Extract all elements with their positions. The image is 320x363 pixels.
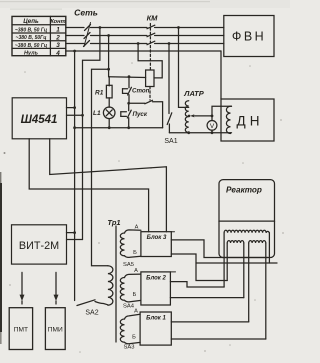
wire phase C row3 to switch [66,43,84,45]
wire control feed horizontal [109,76,146,79]
wire control bottom return [75,127,163,129]
node stub v2 [81,114,84,117]
svg-text:Блок 3: Блок 3 [147,235,167,241]
coil KM [146,70,154,87]
svg-text:Сеть: Сеть [74,8,98,18]
wire phase C KM to FVN [155,43,224,45]
svg-text:Стоп: Стоп [132,88,150,95]
block Реактор [219,180,275,258]
svg-text:ЛАТР: ЛАТР [183,89,204,98]
transformer Tr1 primary winding [108,266,113,305]
wire reactor W3 right lead [265,243,267,339]
wire LATR feed from phase A [177,26,180,29]
wire Ш4541 bottom A to Блок3 [29,139,148,232]
block ВИТ-2М [12,225,67,264]
reactor internal divider [219,220,275,222]
wire phase A drop to v2 [83,28,100,240]
svg-text:ПМТ: ПМТ [14,327,28,334]
wire SA1 bottom [168,124,170,133]
wire reactor W2 left lead [226,243,228,281]
svg-text:КМ: КМ [147,14,159,23]
svg-text:Цепь: Цепь [23,18,39,25]
svg-text:ФВН: ФВН [232,30,266,44]
wire Блок2 stub2 to W2 right [170,297,243,299]
node neutral tap [73,50,76,53]
svg-text:Б: Б [132,335,136,341]
wire secondary1 bottom lead [125,256,141,258]
svg-text:Б: Б [133,292,137,298]
node stub neutral [73,106,76,109]
wire Ш4541 bottom B to Блок3 [50,139,167,232]
svg-text:Ш4541: Ш4541 [21,114,58,126]
switch Сеть gang bar [84,23,91,47]
reactor winding W2 [227,241,244,243]
wire bottom bus SA1 to DN [169,132,231,134]
wire reactor W2 right lead [243,243,245,298]
svg-text:L1: L1 [93,110,101,117]
node voltmeter bottom [211,131,214,134]
transformer Tr1 secondary 3 winding [120,319,140,344]
wire wiper to voltmeter node [193,115,213,117]
DN internal winding [226,106,231,133]
block Блок3 [141,232,171,257]
node LATR bottom [187,131,190,134]
wire ВИТ stub to neutral [67,232,75,234]
svg-text:~380 В, 50 Гц: ~380 В, 50 Гц [15,43,47,49]
svg-text:Блок 2: Блок 2 [146,275,166,281]
svg-text:Конт: Конт [50,19,65,25]
contactor KM contact pole3 [147,41,155,45]
svg-text:А: А [134,268,138,274]
wire phase B row2 to switch [66,35,84,37]
svg-text:R1: R1 [95,90,104,97]
wire phase A row1 to switch [66,27,84,29]
svg-text:Нуль: Нуль [24,51,38,57]
block FVN [224,16,274,57]
wire Блок1 stub2 to W3 right [171,338,265,340]
node L1 bottom [108,126,111,129]
wire node up to DN coil top [212,106,232,116]
wire Блок3 stub1 to reactor W3 right [171,240,267,258]
wire phase C switch to KM [91,43,147,45]
wire phase B KM to FVN [155,35,224,37]
wire v3 to Tr1 primary top [92,69,109,266]
pushbutton Стоп [123,77,132,104]
wire neutral row4 [66,50,221,52]
switch Сеть blade pole1 [85,25,91,31]
svg-text:Б: Б [133,250,137,256]
wire R1 top lead [108,77,110,86]
svg-text:А: А [134,309,138,315]
scan edge left [0,183,2,332]
wire neutral drop (long vertical v1) [74,51,76,301]
svg-text:ДН: ДН [237,114,264,129]
contactor KM gang dashed link [149,24,151,70]
svg-text:SA2: SA2 [85,310,98,317]
wire Блок1 stub1 to W3 left [171,321,248,323]
node phase B tap [107,34,110,37]
svg-text:4: 4 [55,50,60,57]
svg-text:Пуск: Пуск [133,111,148,118]
node LATR tap [188,115,191,118]
contactor KM contact pole2 [147,33,155,37]
wire Ш4541 stub to neutral [67,107,75,109]
node puck top [127,102,130,105]
svg-text:SA1: SA1 [164,138,177,145]
node wiper-voltmeter [211,115,214,118]
node phase C tap for KM coil [137,42,140,45]
wire reactor W1 right lead [268,233,270,263]
block ПМТ [9,308,32,350]
wire Блок3 stub2 staircase [171,254,227,281]
autotransformer LATR winding [185,101,188,133]
node phase A tap [99,26,102,29]
wire stop to aux contact [129,102,145,104]
wire reactor W1 left lead [223,233,225,287]
svg-text:~380 В, 50 Гц: ~380 В, 50 Гц [15,27,47,33]
svg-text:3: 3 [56,42,60,49]
switch SA2 blade [77,300,95,306]
wire ВИТ stub to v2 end [67,239,83,241]
svg-text:А: А [135,225,139,231]
block Блок1 [140,312,171,345]
wire ВИТ to ПМТ arrow [20,272,25,304]
node stop branch [128,75,131,78]
resistor R1 [106,85,112,98]
wire Блок2 stub1 staircase [170,282,224,287]
switch SA1 blade [167,113,172,125]
wire aux right loop [153,102,163,128]
wire neutral turn down to DN [220,51,222,99]
lamp L1 [103,107,115,119]
transformer Tr1 core [115,226,117,342]
block ПМИ [45,308,65,350]
wire phase A KM to FVN [155,27,224,29]
node puck bottom [127,126,130,129]
wire R1 to L1 [108,98,110,107]
transformer Tr1 secondary 2 winding [120,278,141,302]
voltmeter PV [207,116,217,133]
svg-text:ВИТ-2М: ВИТ-2М [19,240,59,252]
switch Сеть blade pole3 [84,41,90,47]
svg-text:Тр1: Тр1 [107,218,120,227]
svg-text:~380 В, 50Гц: ~380 В, 50Гц [16,35,47,41]
block Блок2 [141,272,171,305]
svg-text:1: 1 [56,27,60,34]
block ДН [221,99,274,141]
transformer Tr1 secondary 1 winding [120,233,124,256]
svg-text:SA4: SA4 [123,304,135,310]
wire bus under reactor [196,262,277,264]
node ВИТ neutral [73,231,76,234]
wire secondary1 top lead [125,230,141,233]
wire KM coil feed gamma [138,44,162,78]
wire Ш4541 stub to v2 [67,114,83,116]
reactor winding W1 [224,230,269,233]
block Ш4541 [12,98,66,139]
connector table X1 [12,16,66,55]
svg-text:SA5: SA5 [123,262,134,268]
svg-text:ПМИ: ПМИ [48,327,63,334]
switch Сеть blade pole2 [84,33,90,39]
wire SA2 to Tr1 primary bottom [95,302,108,305]
LATR wiper arrow [190,114,195,117]
wire reactor W3 left lead [248,243,250,322]
wire phase A switch to KM [91,27,147,29]
wire L1 bottom lead [108,119,110,128]
svg-text:2: 2 [55,34,60,41]
contactor KM contact pole1 [147,25,155,29]
node neutral-control junction [73,126,76,129]
wire phase B drop v3 branch [108,36,110,77]
wire ВИТ to ПМИ arrow [54,272,59,304]
switch SA1 feed [168,42,171,45]
pushbutton Пуск [121,103,131,127]
wire secondary3 top lead [125,314,141,319]
wire secondary2 top lead [125,274,141,277]
wire phase B switch to KM [91,35,147,37]
svg-text:SA3: SA3 [124,345,135,351]
svg-text:Блок 1: Блок 1 [146,316,166,322]
svg-text:V: V [210,123,215,130]
reactor winding W3 [249,241,266,243]
contact KM auxiliary [145,100,153,104]
KM coil to aux contact dashed link [149,87,151,101]
node v3 branch [107,68,110,71]
svg-text:Реактор: Реактор [226,186,262,195]
